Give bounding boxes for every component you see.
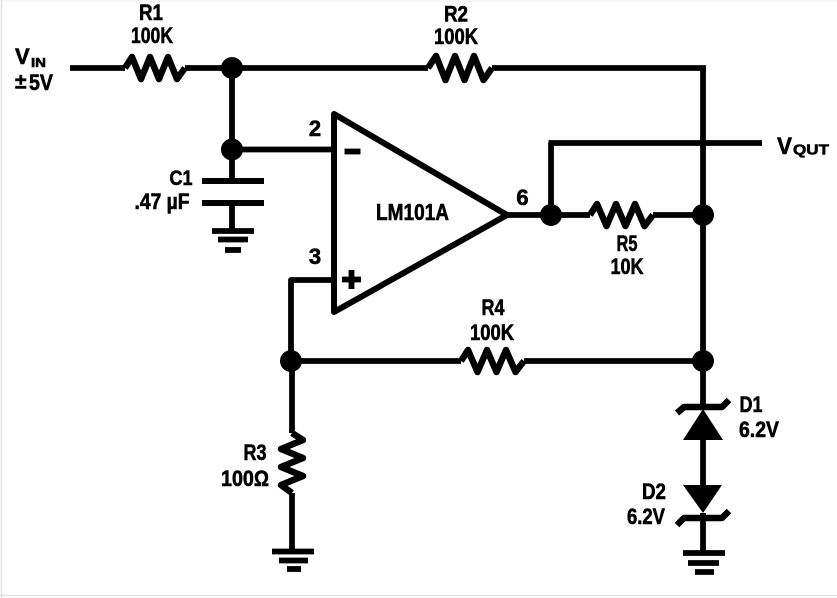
svg-text:R5: R5 xyxy=(617,231,638,256)
svg-text:R3: R3 xyxy=(244,440,267,465)
svg-text:R2: R2 xyxy=(444,2,468,27)
svg-text:2: 2 xyxy=(309,116,321,141)
svg-text:D2: D2 xyxy=(642,479,666,504)
svg-text:QUT: QUT xyxy=(793,142,829,159)
svg-text:10K: 10K xyxy=(611,254,644,279)
svg-text:R4: R4 xyxy=(482,295,506,320)
svg-text:V: V xyxy=(15,44,30,69)
svg-text:5V: 5V xyxy=(29,70,53,95)
svg-text:100K: 100K xyxy=(434,24,478,49)
svg-text:IN: IN xyxy=(31,55,46,70)
svg-text:.47 µF: .47 µF xyxy=(135,189,190,214)
svg-text:D1: D1 xyxy=(740,392,763,417)
svg-text:6.2V: 6.2V xyxy=(627,504,665,529)
svg-text:100Ω: 100Ω xyxy=(221,466,269,491)
svg-text:6: 6 xyxy=(516,185,528,210)
svg-text:6.2V: 6.2V xyxy=(739,417,779,442)
svg-text:100K: 100K xyxy=(131,23,173,48)
svg-text:3: 3 xyxy=(309,244,321,269)
svg-text:LM101A: LM101A xyxy=(376,199,449,225)
svg-text:C1: C1 xyxy=(170,167,193,190)
svg-text:R1: R1 xyxy=(139,0,163,25)
svg-text:V: V xyxy=(777,133,792,160)
svg-text:100K: 100K xyxy=(470,320,514,345)
svg-text:±: ± xyxy=(15,71,27,94)
